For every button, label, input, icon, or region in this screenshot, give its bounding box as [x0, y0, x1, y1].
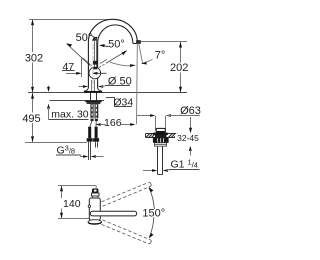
svg-text:202: 202 — [170, 62, 188, 74]
dimension 32-45 — [175, 117, 200, 156]
centerline of body — [92, 44, 94, 91]
svg-text:166: 166 — [104, 117, 122, 129]
plan view faucet body — [88, 189, 102, 225]
joystick lever stick — [93, 37, 98, 67]
svg-text:max. 30: max. 30 — [51, 108, 89, 120]
dimension D63 — [137, 105, 201, 130]
svg-text:50°: 50° — [108, 39, 125, 51]
angle label 50 deg right — [99, 39, 125, 51]
dimension 166 — [96, 117, 136, 129]
dimension 302 — [25, 20, 43, 93]
swivel arc 150 deg — [142, 187, 165, 238]
body inner supply lines — [92, 80, 95, 93]
pop-up waste: counter section hatched — [146, 134, 178, 138]
svg-text:495: 495 — [22, 113, 40, 125]
dimension 140 — [58, 186, 96, 219]
svg-text:150°: 150° — [142, 208, 165, 220]
label G3/8 — [56, 144, 104, 158]
label D34 leader — [106, 96, 133, 108]
mounting washer and nut — [85, 101, 102, 104]
wire: counter bottom line — [50, 100, 105, 102]
shank below counter — [91, 93, 97, 101]
wire: extension line top of spout (302 ref) — [29, 19, 110, 21]
plan view spout — [90, 211, 136, 216]
spout tip aerator — [133, 41, 141, 44]
dimension 495 — [22, 93, 87, 143]
svg-text:32-45: 32-45 — [177, 133, 199, 143]
base flange — [84, 87, 102, 93]
label G1 1/4 — [143, 157, 200, 172]
hose tails — [90, 121, 96, 127]
svg-text:140: 140 — [63, 198, 81, 210]
hose connectors G3/8 — [87, 127, 99, 160]
wire: counter top line — [28, 92, 187, 94]
plan view swivel dashed positions — [102, 183, 151, 244]
ball joint dome — [89, 67, 107, 79]
angle label 50 deg left — [76, 32, 99, 44]
lever tilt line right — [99, 50, 127, 67]
supply hoses braided — [90, 104, 98, 121]
dimension max.30 — [47, 86, 89, 121]
dimension D50 — [79, 76, 132, 88]
7 deg annotation — [110, 44, 165, 124]
svg-text:7°: 7° — [155, 50, 166, 62]
faucet outer spout + body left edge — [88, 19, 137, 87]
svg-text:302: 302 — [25, 52, 43, 64]
svg-text:Ø34: Ø34 — [113, 96, 133, 108]
dimension 202 — [141, 42, 188, 93]
lever tilt line left — [66, 43, 92, 66]
faucet inner spout + body right edge — [98, 25, 133, 87]
dimension 47 — [62, 58, 82, 78]
pop-up waste fitting — [153, 128, 169, 174]
